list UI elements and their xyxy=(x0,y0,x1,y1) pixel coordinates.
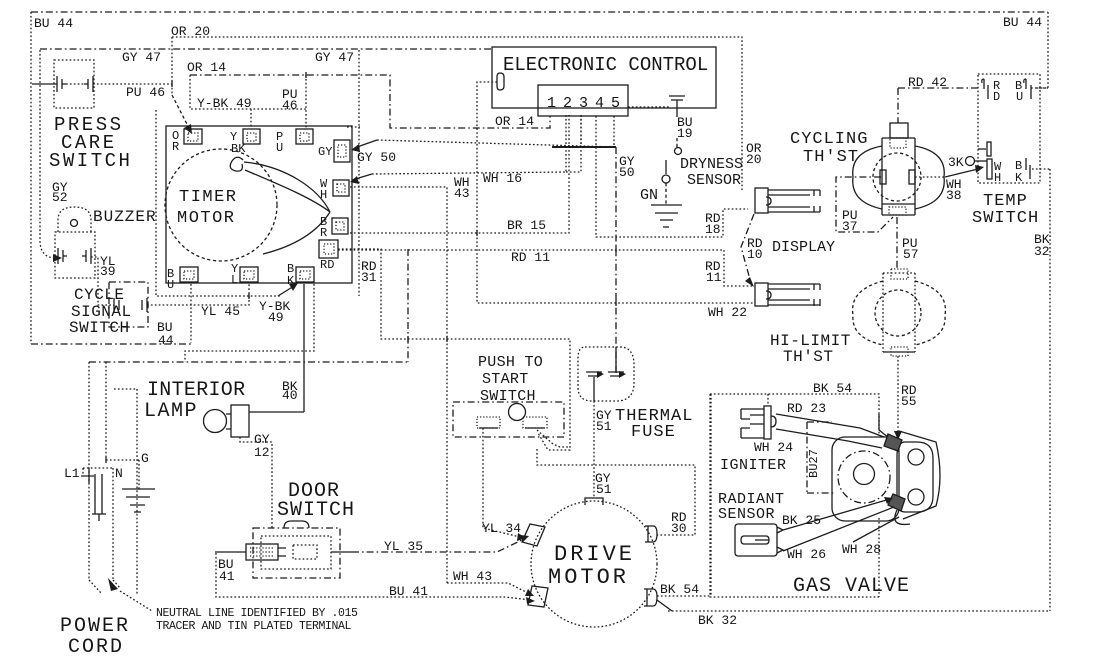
buzzer pilot circle xyxy=(71,220,78,227)
svg-text:BU27: BU27 xyxy=(807,449,821,478)
svg-text:TIMER: TIMER xyxy=(179,188,238,207)
wire WH43 lower run to motor xyxy=(447,583,530,594)
thermal fuse body xyxy=(578,347,634,401)
EC left connector pin xyxy=(497,73,504,90)
cycling thermostat contacts xyxy=(880,170,886,184)
cycle signal left contact xyxy=(114,298,119,312)
svg-text:BU 44: BU 44 xyxy=(1003,15,1042,30)
svg-text:BK 54: BK 54 xyxy=(813,381,852,396)
push to start right terminal xyxy=(523,417,547,428)
wire YL35 door switch to motor xyxy=(331,551,352,553)
svg-text:IGNITER: IGNITER xyxy=(720,457,787,474)
wire BU44 riser to timer BU xyxy=(190,284,192,343)
cycle signal switch box xyxy=(109,282,148,327)
svg-text:TH'ST: TH'ST xyxy=(803,148,859,167)
cycling thermostat body xyxy=(882,123,915,215)
svg-text:H: H xyxy=(994,171,1001,185)
wire PU57 cycling to hi-limit xyxy=(896,217,898,269)
wire OR14 to electronic control xyxy=(190,75,550,128)
wire BK40 into lamp xyxy=(249,411,304,413)
svg-text:CORD: CORD xyxy=(68,636,124,659)
svg-text:LAMP: LAMP xyxy=(144,400,198,423)
svg-text:DISPLAY: DISPLAY xyxy=(772,239,835,256)
wire GY50 down to thermal fuse xyxy=(615,147,617,373)
push to start button circle xyxy=(509,404,526,421)
buzzer left contact xyxy=(58,248,67,264)
power cord ground symbol xyxy=(122,489,155,512)
wire BU41 lower run to motor xyxy=(216,553,531,600)
svg-text:H: H xyxy=(320,188,327,202)
svg-text:11: 11 xyxy=(706,270,722,285)
svg-text:N: N xyxy=(115,466,123,481)
svg-text:44: 44 xyxy=(158,333,174,348)
wire BK54 gas valve box to motor xyxy=(657,394,711,597)
svg-text:43: 43 xyxy=(454,186,470,201)
buzzer right contact xyxy=(82,248,91,264)
svg-text:R: R xyxy=(320,226,327,240)
wire BU44 top border xyxy=(31,12,1048,344)
gas valve coil circle xyxy=(838,451,890,503)
svg-text:CYCLE: CYCLE xyxy=(74,286,125,304)
wire aux riser to console bottom xyxy=(185,284,314,362)
ground symbol xyxy=(651,205,682,227)
power cord ground pin xyxy=(138,460,140,489)
svg-text:SWITCH: SWITCH xyxy=(277,499,355,522)
wire RD11 long run xyxy=(338,250,753,286)
svg-text:49: 49 xyxy=(268,310,284,325)
drive motor top terminal xyxy=(585,498,603,505)
svg-text:19: 19 xyxy=(677,126,693,141)
drive motor circle M1 xyxy=(531,501,657,627)
svg-text:SWITCH: SWITCH xyxy=(69,319,130,337)
wire BK32 motor diagonal xyxy=(657,600,672,611)
wire PU46 diagonal to timer O/R xyxy=(172,95,189,128)
hi-limit thermostat body xyxy=(883,269,915,356)
svg-text:PUSH TO: PUSH TO xyxy=(478,354,543,371)
wire RD55 hi-limit to gas valve xyxy=(897,356,899,434)
svg-text:3K: 3K xyxy=(948,155,964,170)
svg-text:RD: RD xyxy=(320,258,334,272)
wire console right edge xyxy=(347,50,360,296)
wire YL45 cycle signal to timer YL xyxy=(147,284,249,305)
wire console bottom edge BU44 xyxy=(31,343,191,345)
wire into press care from left border xyxy=(32,83,57,85)
wire BU44 into temp switch xyxy=(1031,87,1048,89)
wire RD10 between display connectors xyxy=(741,214,754,283)
gas valve outer hull xyxy=(895,431,940,524)
svg-text:RD 42: RD 42 xyxy=(908,75,947,90)
wire GY52 console left edge to buzzer xyxy=(40,50,56,258)
svg-text:SENSOR: SENSOR xyxy=(718,506,775,523)
svg-text:BUZZER: BUZZER xyxy=(93,208,157,226)
svg-text:WH 43: WH 43 xyxy=(453,569,492,584)
buzzer body box xyxy=(55,232,95,278)
press care switch box xyxy=(54,60,94,108)
thermal fuse left contact xyxy=(586,372,602,401)
wire BK40 timer BK down to lamp xyxy=(303,284,305,412)
svg-text:WH 16: WH 16 xyxy=(483,171,522,186)
svg-text:U: U xyxy=(167,278,174,292)
svg-text:DRYNESS: DRYNESS xyxy=(680,156,743,173)
svg-text:INTERIOR: INTERIOR xyxy=(147,379,245,402)
wire WH43 timer down to door area xyxy=(350,187,447,583)
wire GY51 thermal fuse to motor xyxy=(593,401,595,497)
svg-text:10: 10 xyxy=(747,247,763,262)
svg-text:BU 44: BU 44 xyxy=(34,16,73,31)
svg-text:L1: L1 xyxy=(64,466,80,481)
svg-text:ELECTRONIC CONTROL: ELECTRONIC CONTROL xyxy=(503,54,708,76)
svg-text:WH 26: WH 26 xyxy=(787,547,826,562)
timer dashed enclosure xyxy=(156,110,282,296)
temp switch terminal BU xyxy=(1024,79,1031,99)
arrow into buzzer contact xyxy=(53,254,62,262)
svg-text:1: 1 xyxy=(547,95,556,112)
push to start switch box xyxy=(453,402,564,437)
svg-text:U: U xyxy=(1016,90,1023,104)
svg-text:WH 28: WH 28 xyxy=(842,542,881,557)
drive motor lower left terminal xyxy=(528,586,548,607)
gas valve BU27 dashed box xyxy=(807,422,835,493)
svg-text:YL 35: YL 35 xyxy=(384,539,423,554)
svg-text:5: 5 xyxy=(611,95,620,112)
svg-text:BK 25: BK 25 xyxy=(782,513,821,528)
svg-text:BK 54: BK 54 xyxy=(660,582,699,597)
gas valve terminal plate xyxy=(897,442,933,512)
interior lamp bulb xyxy=(204,410,227,433)
svg-text:GY 47: GY 47 xyxy=(315,50,354,65)
svg-text:12: 12 xyxy=(254,445,270,460)
svg-text:DRIVE: DRIVE xyxy=(554,542,635,567)
svg-text:BU 41: BU 41 xyxy=(389,584,428,599)
svg-text:GAS VALVE: GAS VALVE xyxy=(793,575,910,598)
svg-text:YL 45: YL 45 xyxy=(201,304,240,319)
wire Y-BK49 lower arrow xyxy=(278,286,294,296)
svg-text:GY: GY xyxy=(318,145,332,159)
hi-limit disc xyxy=(875,290,921,336)
wire Y-BK49 upper run xyxy=(190,75,306,129)
svg-text:NEUTRAL LINE IDENTIFIED BY .01: NEUTRAL LINE IDENTIFIED BY .015 xyxy=(156,607,358,620)
press care switch left contact xyxy=(57,76,66,92)
wire WH24 igniter to valve xyxy=(776,429,882,448)
svg-text:51: 51 xyxy=(596,419,612,434)
timer motor circle xyxy=(165,149,277,261)
svg-text:GY 50: GY 50 xyxy=(357,150,396,165)
svg-text:41: 41 xyxy=(219,569,235,584)
svg-text:GN: GN xyxy=(640,187,658,204)
wire WH16 timer to EC xyxy=(352,174,372,180)
wire GY50 timer to EC xyxy=(377,140,616,147)
wire YL39 buzzer to cycle signal switch xyxy=(91,257,114,305)
svg-text:MOTOR: MOTOR xyxy=(177,209,236,228)
power cord plug N blade xyxy=(106,362,139,460)
gas valve upper spade terminal xyxy=(884,434,902,451)
svg-text:BR 15: BR 15 xyxy=(507,218,546,233)
wire BK54 gas valve corner arrow xyxy=(879,414,889,438)
svg-text:BK 32: BK 32 xyxy=(698,613,737,628)
wire igniter to BK54 box edge xyxy=(767,394,769,406)
cycling thermostat wings xyxy=(853,146,882,209)
wire BU41 into door switch xyxy=(215,551,246,553)
svg-text:RD 11: RD 11 xyxy=(511,250,550,265)
wire RD42 cycling thst to temp switch xyxy=(898,88,980,123)
svg-text:PU 46: PU 46 xyxy=(126,85,165,100)
wire WH22 EC connector to display xyxy=(477,82,753,303)
drive motor upper left terminal xyxy=(522,524,545,546)
svg-text:52: 52 xyxy=(52,190,68,205)
thermal fuse right contact xyxy=(608,347,624,376)
wire PU46 from press care to junction xyxy=(66,83,172,85)
timer motor box U1 xyxy=(166,126,352,283)
display upper connector xyxy=(755,188,820,213)
svg-text:YL 34: YL 34 xyxy=(482,521,521,536)
wire RD23 igniter to valve xyxy=(776,414,884,437)
svg-text:57: 57 xyxy=(903,247,919,262)
svg-text:50: 50 xyxy=(619,165,635,180)
door area dashed enclosure xyxy=(114,389,137,594)
display lower connector xyxy=(755,283,820,306)
igniter plug xyxy=(741,406,776,439)
svg-text:38: 38 xyxy=(946,188,962,203)
radiant sensor body xyxy=(735,524,783,556)
power cord tail xyxy=(89,580,120,593)
svg-text:Y-BK 49: Y-BK 49 xyxy=(197,96,252,111)
svg-text:2: 2 xyxy=(563,95,572,112)
svg-text:51: 51 xyxy=(596,482,612,497)
wire RD30 pts to motor xyxy=(537,430,695,535)
svg-text:TRACER AND TIN PLATED TERMINAL: TRACER AND TIN PLATED TERMINAL xyxy=(156,620,352,633)
wire BR15 timer to EC xyxy=(350,115,569,233)
svg-text:FUSE: FUSE xyxy=(631,423,676,442)
push to start left terminal xyxy=(477,417,500,428)
wire sensor to ground xyxy=(665,183,667,204)
svg-text:20: 20 xyxy=(746,152,762,167)
temp switch terminal BK xyxy=(1026,158,1030,179)
svg-text:D: D xyxy=(993,90,1000,104)
drive motor lower right terminal BK54 xyxy=(644,589,657,606)
gas valve lower spade terminal xyxy=(888,494,905,511)
svg-text:SWITCH: SWITCH xyxy=(49,150,132,172)
power cord plug body xyxy=(83,468,113,580)
svg-text:32: 32 xyxy=(1034,244,1050,259)
wire YL34 pts to motor xyxy=(483,428,520,537)
wire RD18 pin4 to display xyxy=(596,116,748,237)
wire BU19 down to sensor xyxy=(676,138,678,147)
wire BK25 sensor to valve xyxy=(783,499,890,530)
gas valve body xyxy=(832,437,899,521)
svg-text:OR 20: OR 20 xyxy=(171,24,210,39)
svg-text:30: 30 xyxy=(671,521,687,536)
svg-text:POWER: POWER xyxy=(60,615,130,638)
svg-text:46: 46 xyxy=(282,98,298,113)
cycling thermostat disc xyxy=(873,153,921,201)
svg-text:GY 47: GY 47 xyxy=(122,50,161,65)
press care switch right contact xyxy=(84,76,93,92)
leader to neutral note xyxy=(120,591,152,611)
wire WH28 valve lower stub xyxy=(853,517,899,542)
wire WH38 cycling to temp switch xyxy=(915,176,945,178)
wire RD31 timer RD to push-to-start xyxy=(338,249,570,450)
svg-text:G: G xyxy=(141,451,149,466)
svg-text:3: 3 xyxy=(579,95,588,112)
EC terminal strip 1 2 3 4 5 xyxy=(538,85,628,116)
door switch assembly xyxy=(246,521,340,578)
svg-text:MOTOR: MOTOR xyxy=(548,565,629,590)
wire terminal strip to dryness plate xyxy=(628,106,670,108)
electronic control box U2 xyxy=(492,47,716,108)
power cord plug L1 blade xyxy=(88,362,90,580)
timer cam follower curves xyxy=(230,157,243,171)
svg-text:4: 4 xyxy=(595,95,604,112)
svg-text:SWITCH: SWITCH xyxy=(972,209,1039,228)
drive motor right terminal RD30 xyxy=(645,526,657,542)
svg-text:U: U xyxy=(276,141,283,155)
svg-text:START: START xyxy=(482,371,529,388)
temp switch terminal RD xyxy=(982,79,988,99)
svg-text:39: 39 xyxy=(100,264,116,279)
buzzer dome xyxy=(58,207,91,232)
svg-text:CYCLING: CYCLING xyxy=(790,130,868,149)
svg-text:18: 18 xyxy=(705,222,721,237)
svg-text:SENSOR: SENSOR xyxy=(687,172,741,189)
wire WH26 sensor to valve xyxy=(783,507,894,551)
gas valve assembly dotted box xyxy=(710,394,879,597)
junction ticks xyxy=(106,72,616,463)
wire GY12 lamp to door switch xyxy=(240,437,272,529)
EC dryness sensor plate xyxy=(669,96,685,117)
svg-text:31: 31 xyxy=(361,270,377,285)
wire GY47 console top edge xyxy=(40,48,492,50)
dryness sensor electrodes xyxy=(675,148,682,155)
wire BK32 temp switch to right border xyxy=(668,169,1050,611)
svg-text:TH'ST: TH'ST xyxy=(783,348,834,366)
svg-text:WH 24: WH 24 xyxy=(754,440,793,455)
temp switch contact bars W/H xyxy=(987,142,991,156)
svg-text:OR 14: OR 14 xyxy=(187,60,226,75)
hi-limit wings xyxy=(853,281,883,345)
svg-text:R: R xyxy=(172,140,179,154)
wire PU37 loop xyxy=(836,177,893,232)
svg-text:K: K xyxy=(1015,171,1023,185)
svg-text:OR 14: OR 14 xyxy=(495,114,534,129)
wire GY50 pin5 segment xyxy=(552,146,616,148)
wire OR20 top run xyxy=(172,37,742,190)
svg-text:WH 22: WH 22 xyxy=(708,305,747,320)
svg-text:RD 23: RD 23 xyxy=(787,401,826,416)
svg-text:37: 37 xyxy=(842,219,858,234)
cycle signal right contact xyxy=(142,298,147,312)
svg-text:L: L xyxy=(231,273,238,287)
svg-text:55: 55 xyxy=(901,394,917,409)
svg-text:40: 40 xyxy=(282,388,298,403)
temp switch box xyxy=(978,74,1040,183)
wire L1 run to push-to-start riser xyxy=(89,249,408,362)
